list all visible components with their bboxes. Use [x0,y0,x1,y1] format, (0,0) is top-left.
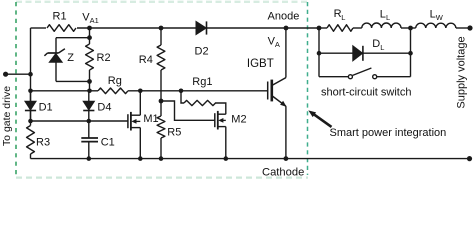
junction: M2 source [224,156,229,161]
resistor R1 [47,25,76,32]
svg-text:short-circuit switch: short-circuit switch [321,86,411,98]
resistor R2 [86,44,94,70]
svg-text:R2: R2 [97,52,111,64]
supply terminal bottom [467,156,472,161]
junction: R5 bottom [159,156,164,161]
resistor RL [319,8,362,31]
wire: gate rail left segment [31,90,99,92]
junction: left bus / cathode rail [28,119,33,124]
IGBT U1 [247,28,287,159]
svg-text:L: L [380,43,384,52]
wire: zener bottom to R2 bottom [56,80,90,82]
node V_A1 [87,26,92,31]
svg-text:R4: R4 [139,54,153,66]
svg-text:R3: R3 [36,137,50,149]
smart power integration boundary: right dashed edge [307,2,309,175]
zener diode Z [44,38,74,82]
wire: D1/D4 cathode rail to M1 gate [31,120,128,122]
svg-text:L: L [380,9,386,21]
wire: left node vertical [318,28,320,77]
svg-text:L: L [386,13,390,22]
supply terminal top [467,25,472,30]
junction: D4 / C1 node [87,119,92,124]
wire: right node vertical [410,28,412,77]
diode D2 [195,21,209,57]
junction: zener/R2 bottom node [87,79,92,84]
svg-text:R1: R1 [53,10,67,22]
junction: M1 drain on gate rail [138,89,143,94]
wire: left vertical bus [30,28,32,126]
svg-text:Smart power integration: Smart power integration [330,127,447,139]
node Anode [284,26,289,31]
short-circuit switch S1 [319,68,411,98]
junction: R4 top on rail [159,26,164,31]
diode D4 [83,91,111,121]
junction: R2 node / gate rail [87,89,92,94]
junction: M1 source [138,156,143,161]
wire: cathode rail [31,158,470,160]
junction: R_L/D_L left node [317,26,322,31]
resistor R3 [27,126,50,159]
svg-text:A: A [275,40,280,49]
svg-text:L: L [341,13,345,22]
resistor Rg1 [181,76,226,114]
capacitor C1 [81,121,114,159]
wire: top node to zener branch [56,37,90,39]
junction: L_L/L_W node [408,26,413,31]
svg-text:A1: A1 [90,16,99,25]
junction: Rg1 tap on gate rail [179,89,184,94]
junction: C1 bottom [87,156,92,161]
transistor M2 [215,111,247,159]
smart power integration boundary: left dashed edge [15,2,17,177]
diode D1 [25,91,53,121]
svg-text:C1: C1 [101,137,115,149]
inductor LW [416,9,470,28]
wire: input stub to left bus [6,73,31,75]
wire: top rail D2 to R_L node [207,27,320,29]
resistor R4 [139,28,165,101]
resistor Rg [98,88,128,94]
svg-text:D4: D4 [97,102,111,114]
transistor M1 [128,91,159,159]
smart power integration boundary: top dashed edge [16,1,307,3]
svg-text:M1: M1 [143,113,158,125]
junction: R4/R5 divider tap [159,99,164,104]
smart power integration boundary: bottom dashed edge [16,177,308,179]
gate drive input terminal [3,72,8,77]
svg-text:Rg: Rg [108,75,122,87]
svg-text:To gate drive: To gate drive [1,86,13,146]
svg-text:IGBT: IGBT [247,58,274,70]
resistor R5 [157,101,181,159]
junction: D_L left [317,51,322,56]
svg-text:D: D [372,38,380,50]
wire: V_A1 down to sub-node [89,28,91,44]
node Cathode [284,156,289,161]
wire: R2 bottom lead [89,70,91,91]
svg-text:Supply voltage: Supply voltage [456,36,468,108]
inductor LL [362,9,416,28]
svg-text:R5: R5 [167,126,181,138]
svg-text:Rg1: Rg1 [192,76,212,88]
diode DL [319,38,411,61]
svg-text:L: L [430,9,436,21]
svg-text:W: W [436,13,444,22]
junction: D_L right [408,51,413,56]
wire: top rail V_A1 to D2 [77,27,196,29]
svg-text:D1: D1 [39,102,53,114]
svg-text:D2: D2 [195,45,209,57]
junction: left bus / gate rail [28,89,33,94]
wire: top rail left segment [31,27,47,29]
junction: zener/R2 top node [87,35,92,40]
svg-text:M2: M2 [231,113,246,125]
wire: gate rail to IGBT gate [128,90,268,92]
wire: divider tap to M2 gate [161,101,215,120]
svg-text:Cathode: Cathode [262,166,304,178]
svg-text:Anode: Anode [268,10,300,22]
svg-text:Z: Z [67,52,74,64]
junction: input on left bus [28,72,33,77]
Smart power integration callout arrow [308,110,331,127]
